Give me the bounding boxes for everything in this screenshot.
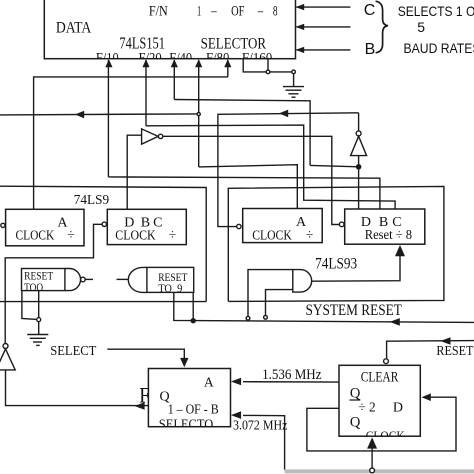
inverter U3 (between box1 and box2 row) (127, 135, 141, 209)
wire select input B (297, 49, 351, 51)
wire inverter U2 out to box3 clock (218, 113, 359, 227)
svg-text:BAUD RATES: BAUD RATES (404, 40, 474, 56)
svg-text:D: D (393, 400, 403, 415)
counter box4 74LS93 (345, 209, 425, 244)
svg-text:74LS151: 74LS151 (119, 33, 165, 52)
node tap dot (266, 70, 270, 74)
wire G3 output to box4 reset (312, 250, 400, 281)
svg-text:–: – (257, 3, 263, 19)
wire Qbar to D feedback (307, 397, 456, 451)
svg-text:RESET: RESET (436, 344, 473, 359)
svg-text:÷: ÷ (306, 227, 313, 242)
svg-text:CLOCK: CLOCK (252, 228, 292, 243)
wire input arrow F/20 (145, 60, 147, 126)
svg-text:CLOCK: CLOCK (16, 228, 55, 243)
wire 3.072MHz crystal rail (bottom edge) (285, 469, 474, 473)
wire system reset rail left (0, 301, 206, 303)
wire F/40 to node (174, 100, 310, 166)
wire input arrow F/80 (198, 60, 200, 167)
gate G1 NAND body (65, 269, 81, 291)
node tap circle (37, 318, 41, 322)
svg-text:÷ 2: ÷ 2 (358, 400, 375, 415)
wire clock tap to box6 (371, 448, 373, 469)
wire 1.536 MHz from box6 to box5 (243, 381, 339, 383)
pin clock bubble box2 (102, 222, 106, 226)
wire select input (middle) (297, 26, 351, 28)
svg-text:Q: Q (350, 414, 361, 430)
wire box2 clock to inverter U5 (5, 224, 102, 343)
counter box3 (243, 209, 323, 243)
svg-text:A: A (204, 374, 214, 389)
IC U1 74LS151 data selector box (44, 0, 295, 59)
svg-text:3.072 MHz: 3.072 MHz (233, 418, 287, 433)
pin clock bubble box4 (339, 222, 344, 227)
counter box2 (107, 209, 186, 244)
svg-text:TO 9: TO 9 (158, 283, 182, 295)
wire F to box5 (6, 370, 149, 406)
svg-text:OF: OF (231, 3, 244, 19)
pin clock bubble box3 (237, 224, 241, 228)
ground (27, 334, 48, 336)
svg-text:SYSTEM RESET: SYSTEM RESET (306, 302, 403, 319)
counter box1 74LS90 (6, 209, 84, 246)
wire input arrow F/160 (227, 60, 229, 77)
svg-text:74LS9: 74LS9 (74, 193, 109, 208)
svg-text:SELECTOR: SELECTOR (201, 35, 267, 52)
gate G2 AND reset-to-9 (mirrored) label box (147, 267, 194, 292)
svg-text:B: B (365, 41, 376, 58)
brace (376, 1, 388, 53)
svg-text:Reset ÷ 8: Reset ÷ 8 (365, 227, 413, 242)
wire SELECT to box5 (107, 349, 184, 360)
wire G2 output stub (117, 278, 130, 280)
svg-text:F: F (139, 383, 150, 408)
wire G1 output stub (85, 278, 93, 280)
strobe sub-box below selector (243, 59, 293, 72)
svg-text:CLEAR: CLEAR (361, 369, 399, 385)
wire long rail from left (0, 186, 206, 301)
node junction dot (357, 165, 361, 169)
selector box5 1-of-8 (148, 369, 230, 427)
svg-text:÷: ÷ (67, 227, 74, 242)
wire to ground (293, 74, 295, 87)
node junction dot (191, 319, 195, 323)
gate G3 AND 74LS93 reset (293, 270, 312, 293)
wire select input C (297, 6, 351, 8)
label box5 contents: A, Q, 1-OF-B SELECTOR (159, 374, 219, 432)
svg-text:RESET: RESET (24, 271, 53, 283)
pin clock bubble box1 (1, 223, 5, 227)
gate G1 NAND reset-to-0 label box (22, 269, 65, 291)
wire G1 inputs to ground (22, 291, 37, 320)
ground (283, 86, 304, 88)
svg-text:SELECTO: SELECTO (159, 418, 213, 433)
svg-text:1.536 MHz: 1.536 MHz (262, 367, 322, 383)
inverter U5 (bottom left, clipped) (3, 344, 8, 349)
svg-text:SELECT: SELECT (50, 344, 97, 359)
svg-text:74LS93: 74LS93 (315, 256, 357, 273)
label box6 contents: CLEAR, Qbar, div2, D, Q, CLOCK (350, 369, 406, 442)
svg-text:DATA: DATA (56, 20, 92, 37)
wire G3 input 1 (248, 270, 293, 317)
wire input arrow F/10 (107, 60, 109, 177)
wire 3.072 MHz to box5 (243, 415, 285, 469)
gate G2 body (128, 267, 147, 292)
svg-text:÷: ÷ (169, 227, 176, 242)
svg-text:F/N: F/N (149, 3, 168, 19)
svg-text:1: 1 (197, 3, 201, 19)
wire input arrow F/40 (173, 60, 175, 100)
wire F/20 to box4 B (146, 125, 395, 209)
svg-text:CLOCK: CLOCK (115, 227, 156, 242)
svg-text:1 – OF - B: 1 – OF - B (168, 402, 219, 417)
wire system reset loop rectangle (228, 186, 444, 301)
svg-text:TOO: TOO (24, 282, 43, 294)
inverter U2 (vertical, above box4) (358, 113, 360, 131)
svg-text:Q: Q (350, 386, 361, 402)
node F/10..F/160 pin labels (clipped at box bottom) (96, 51, 272, 67)
svg-text:SELECTS 1 OF: SELECTS 1 OF (398, 3, 474, 19)
flipflop box6 divide-by-2 (339, 365, 420, 436)
svg-text:–: – (210, 3, 216, 19)
wire receiver clock (left, off page) (0, 114, 199, 115)
svg-text:5: 5 (417, 19, 425, 35)
wire node to inverter U2 in (310, 165, 359, 166)
svg-text:C: C (364, 2, 376, 19)
wire G3 input 2 (266, 290, 293, 316)
wire inverter U3 out to box4 clock (163, 136, 339, 224)
wire G2 to system reset (174, 292, 474, 322)
svg-text:8: 8 (273, 3, 278, 19)
wire F/80 to box3 A (199, 165, 298, 209)
node tap dot (292, 70, 296, 74)
wire RESET to box6 clear (387, 341, 474, 359)
svg-text:F/20: F/20 (139, 51, 162, 67)
wire box1 A output to F/160 (34, 77, 228, 209)
wire F/10 to box4 D (108, 177, 380, 209)
node junction (197, 113, 200, 116)
